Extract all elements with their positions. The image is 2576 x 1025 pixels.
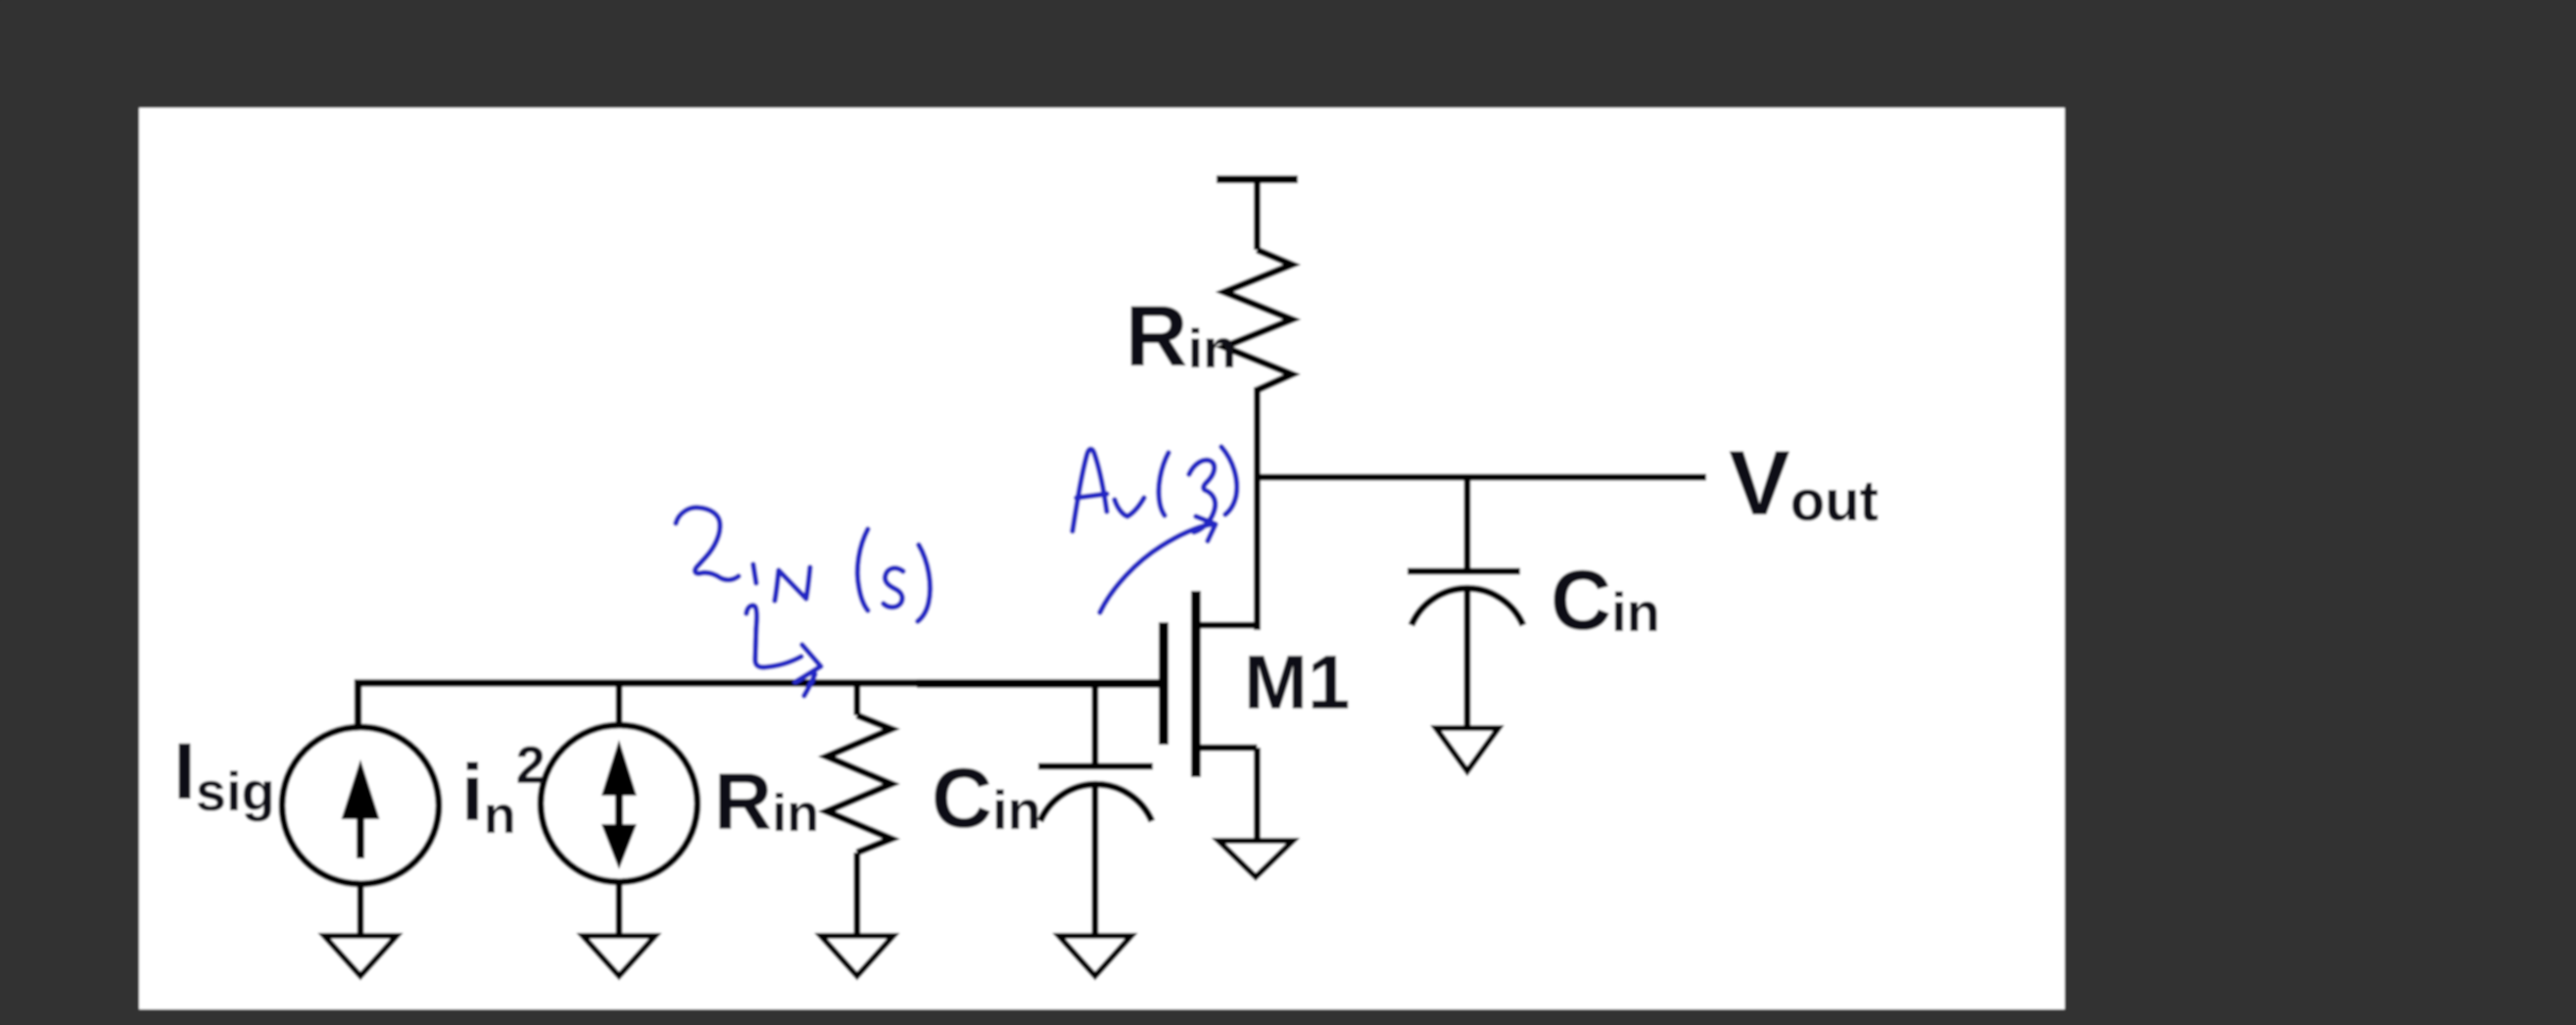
wire: Isig to ground — [358, 882, 364, 938]
transistor M1 (NMOS) — [1164, 591, 1258, 840]
capacitor Cin (output load) — [1407, 477, 1523, 727]
current source in^2 (noise) — [541, 725, 697, 882]
wire: input rail right segment — [917, 679, 1159, 688]
resistor Rin (drain load) — [1224, 250, 1292, 390]
ground (input Cin) — [1059, 936, 1131, 976]
white schematic panel — [139, 108, 2065, 1009]
annotation arrow to input node (blue) — [746, 606, 821, 696]
annotation Zin(s) (blue handwriting) — [676, 508, 930, 621]
supply rail VDD (T symbol) — [1216, 179, 1298, 250]
ground (in^2) — [583, 936, 655, 976]
wire: input rail (gate node) — [358, 683, 922, 727]
wire: in^2 top to input rail — [616, 681, 623, 727]
ground (M1 source) — [1218, 841, 1293, 877]
annotation curved arrow (Av) (blue) — [1100, 516, 1216, 612]
wire: resistor bottom to output node and M1 drain — [1254, 387, 1261, 630]
capacitor Cin (input) — [1038, 681, 1153, 938]
resistor Rin (input) — [827, 681, 891, 938]
double arrow inside in^2 — [601, 740, 637, 869]
annotation Av(s) (blue handwriting) — [1073, 447, 1237, 532]
svg-text:M1: M1 — [1244, 639, 1350, 725]
wire: output node to Vout — [1258, 474, 1707, 481]
ground (Isig) — [324, 936, 397, 976]
ground (input Rin) — [821, 936, 893, 976]
current source Isig — [282, 727, 439, 884]
arrow inside Isig — [342, 759, 380, 858]
ground (output Cin) — [1436, 728, 1499, 771]
wire: in^2 to ground — [616, 882, 623, 938]
